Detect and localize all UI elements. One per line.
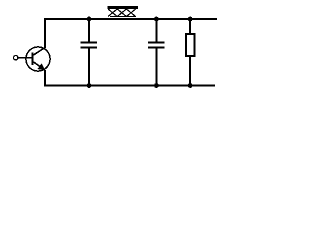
- node junction R1 top: [188, 17, 193, 22]
- node junction C2 top: [154, 17, 159, 22]
- node junction C1 top: [87, 17, 92, 22]
- node junction C2 bottom: [154, 83, 159, 88]
- ferrite bead core L1: [107, 6, 138, 16]
- wire bottom rail: [44, 85, 215, 87]
- capacitor C1: [81, 19, 98, 86]
- wire top rail: [44, 18, 217, 20]
- resistor R1: [186, 19, 195, 86]
- node junction R1 bottom: [188, 83, 193, 88]
- wire collector lead: [44, 19, 46, 48]
- transistor Q1: [18, 47, 50, 71]
- node junction C1 bottom: [87, 83, 92, 88]
- terminal base: [14, 56, 18, 60]
- capacitor C2: [148, 19, 165, 86]
- wire emitter lead: [44, 70, 46, 86]
